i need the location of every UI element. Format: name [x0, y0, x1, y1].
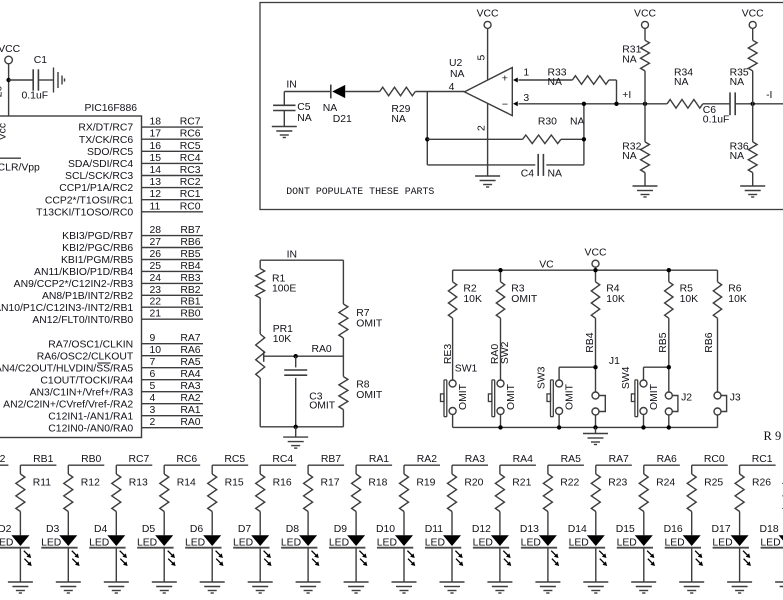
svg-text:LED: LED [425, 537, 445, 548]
svg-text:0.1uF: 0.1uF [22, 91, 49, 102]
svg-text:AN9/CCP2*/C12IN2-/RB3: AN9/CCP2*/C12IN2-/RB3 [14, 279, 134, 290]
svg-text:RA5: RA5 [561, 454, 581, 465]
svg-text:RA4: RA4 [513, 454, 533, 465]
svg-text:D17: D17 [712, 524, 731, 535]
svg-text:RB1: RB1 [180, 297, 200, 308]
svg-text:RC0: RC0 [704, 454, 725, 465]
svg-text:DONT POPULATE THESE PARTS: DONT POPULATE THESE PARTS [286, 186, 434, 197]
svg-text:3: 3 [523, 93, 529, 104]
svg-text:RB4: RB4 [585, 332, 596, 352]
svg-text:D11: D11 [425, 524, 444, 535]
svg-text:SW1: SW1 [455, 364, 478, 375]
svg-text:RB1: RB1 [33, 454, 53, 465]
svg-text:LED: LED [233, 537, 253, 548]
svg-text:RB4: RB4 [180, 261, 200, 272]
svg-text:25: 25 [150, 261, 162, 272]
svg-text:−: − [502, 98, 508, 110]
svg-text:RA6: RA6 [180, 345, 200, 356]
svg-text:C5: C5 [297, 102, 311, 113]
svg-text:IN: IN [287, 250, 297, 261]
svg-text:RC7: RC7 [129, 454, 150, 465]
svg-text:RC5: RC5 [180, 141, 201, 152]
svg-text:LED: LED [569, 537, 589, 548]
svg-text:NA: NA [570, 117, 585, 128]
svg-text:NA: NA [548, 77, 563, 88]
svg-text:RA6/OSC2/CLKOUT: RA6/OSC2/CLKOUT [37, 351, 134, 362]
svg-text:RA1: RA1 [369, 454, 389, 465]
svg-text:-I: -I [766, 90, 772, 101]
svg-text:4: 4 [150, 393, 156, 404]
svg-text:RA2: RA2 [417, 454, 437, 465]
svg-text:SW3: SW3 [536, 366, 547, 389]
svg-text:RA7: RA7 [609, 454, 629, 465]
svg-text:LED: LED [377, 537, 397, 548]
svg-text:NA: NA [622, 55, 637, 66]
svg-text:RC3: RC3 [180, 165, 201, 176]
svg-text:RX/DT/RC7: RX/DT/RC7 [78, 123, 133, 134]
svg-text:U2: U2 [449, 58, 463, 69]
svg-text:R30: R30 [538, 117, 557, 128]
svg-text:R14: R14 [177, 478, 196, 489]
svg-text:NA: NA [391, 114, 406, 125]
svg-text:D7: D7 [238, 524, 252, 535]
svg-text:R25: R25 [704, 478, 723, 489]
svg-text:16: 16 [150, 141, 162, 152]
svg-text:0.1uF: 0.1uF [703, 115, 730, 126]
svg-text:10K: 10K [680, 294, 699, 305]
svg-text:AN12/FLT0/INT0/RB0: AN12/FLT0/INT0/RB0 [32, 315, 133, 326]
svg-text:LED: LED [185, 537, 205, 548]
svg-text:24: 24 [150, 273, 162, 284]
svg-text:RC5: RC5 [224, 454, 245, 465]
svg-text:VCC: VCC [634, 9, 656, 20]
svg-text:C12IN0-/AN0/RA0: C12IN0-/AN0/RA0 [48, 423, 133, 434]
svg-text:PIC16F886: PIC16F886 [84, 103, 137, 114]
svg-text:R24: R24 [656, 478, 675, 489]
svg-text:RC0: RC0 [180, 201, 201, 212]
svg-text:CCP2*/T1OSI/RC1: CCP2*/T1OSI/RC1 [45, 195, 134, 206]
svg-text:C1: C1 [34, 55, 48, 66]
svg-text:RB3: RB3 [180, 273, 200, 284]
svg-text:R26: R26 [752, 478, 771, 489]
svg-text:RA0: RA0 [312, 344, 332, 355]
svg-text:2: 2 [150, 417, 156, 428]
svg-text:R19: R19 [416, 478, 435, 489]
svg-text:D18: D18 [760, 524, 779, 535]
svg-text:CCP1/P1A/RC2: CCP1/P1A/RC2 [59, 183, 133, 194]
svg-text:D15: D15 [616, 524, 635, 535]
svg-text:11: 11 [150, 201, 161, 212]
svg-text:27: 27 [150, 237, 162, 248]
svg-text:3: 3 [150, 405, 156, 416]
svg-text:18: 18 [150, 117, 162, 128]
svg-text:KBI1/PGM/RB5: KBI1/PGM/RB5 [61, 255, 133, 266]
svg-text:RC1: RC1 [752, 454, 773, 465]
svg-text:NA: NA [674, 77, 689, 88]
svg-text:D21: D21 [333, 114, 352, 125]
svg-text:RC7: RC7 [180, 117, 201, 128]
svg-text:LED: LED [329, 537, 349, 548]
svg-text:LED: LED [760, 537, 780, 548]
svg-text:C12IN1-/AN1/RA1: C12IN1-/AN1/RA1 [48, 411, 133, 422]
svg-text:RA3: RA3 [180, 381, 200, 392]
svg-text:AN8/P1B/INT2/RB2: AN8/P1B/INT2/RB2 [42, 291, 133, 302]
svg-text:D5: D5 [142, 524, 156, 535]
svg-text:10K: 10K [606, 294, 625, 305]
svg-text:C4: C4 [521, 168, 535, 179]
svg-text:LED: LED [41, 537, 61, 548]
svg-text:R18: R18 [368, 478, 387, 489]
svg-text:D12: D12 [472, 524, 491, 535]
svg-text:R5: R5 [680, 283, 694, 294]
svg-text:RB5: RB5 [180, 249, 200, 260]
svg-text:J2: J2 [681, 393, 692, 404]
svg-text:NA: NA [730, 151, 745, 162]
svg-text:RB2: RB2 [0, 454, 6, 465]
svg-text:RB7: RB7 [180, 225, 200, 236]
svg-text:NA: NA [548, 168, 563, 179]
svg-text:R11: R11 [33, 478, 52, 489]
svg-text:RC4: RC4 [180, 153, 201, 164]
svg-text:VCC: VCC [585, 247, 607, 258]
svg-text:NA: NA [323, 103, 338, 114]
svg-text:LED: LED [137, 537, 157, 548]
svg-text:LED: LED [473, 537, 493, 548]
svg-text:RB7: RB7 [321, 454, 341, 465]
svg-text:MCLR/Vpp: MCLR/Vpp [0, 163, 40, 174]
svg-text:RA0: RA0 [180, 417, 200, 428]
svg-text:VC: VC [539, 260, 554, 271]
svg-text:OMIT: OMIT [458, 383, 469, 410]
svg-text:NA: NA [730, 77, 745, 88]
svg-text:R15: R15 [225, 478, 244, 489]
svg-text:RB0: RB0 [81, 454, 101, 465]
svg-text:R17: R17 [321, 478, 340, 489]
svg-text:SDO/RC5: SDO/RC5 [87, 147, 133, 158]
svg-text:RA2: RA2 [180, 393, 200, 404]
svg-text:21: 21 [150, 309, 162, 320]
svg-text:LED: LED [664, 537, 684, 548]
svg-text:17: 17 [150, 129, 162, 140]
svg-text:10K: 10K [463, 294, 482, 305]
svg-text:OMIT: OMIT [356, 318, 383, 329]
svg-text:RC6: RC6 [180, 129, 201, 140]
svg-text:+I: +I [622, 90, 631, 101]
svg-text:RB0: RB0 [180, 309, 200, 320]
svg-text:100E: 100E [272, 284, 296, 295]
svg-text:R4: R4 [606, 283, 620, 294]
svg-text:AN10/P1C/C12IN3-/INT2/RB1: AN10/P1C/C12IN3-/INT2/RB1 [0, 303, 133, 314]
svg-text:AN11/KBIO/P1D/RB4: AN11/KBIO/P1D/RB4 [34, 267, 133, 278]
svg-text:OMIT: OMIT [565, 383, 576, 410]
svg-text:NA: NA [450, 69, 465, 80]
svg-text:10K: 10K [728, 294, 747, 305]
svg-text:LED: LED [712, 537, 732, 548]
svg-text:D4: D4 [94, 524, 108, 535]
svg-text:D2: D2 [0, 524, 12, 535]
svg-text:RA6: RA6 [657, 454, 677, 465]
svg-text:OMIT: OMIT [511, 294, 538, 305]
svg-text:RA7/OSC1/CLKIN: RA7/OSC1/CLKIN [48, 339, 133, 350]
svg-text:SW4: SW4 [621, 366, 632, 389]
svg-text:RB6: RB6 [704, 332, 715, 352]
svg-text:LED: LED [89, 537, 109, 548]
svg-text:R16: R16 [273, 478, 292, 489]
svg-text:Vcc: Vcc [0, 123, 9, 140]
svg-text:R22: R22 [560, 478, 579, 489]
svg-text:RC4: RC4 [272, 454, 293, 465]
svg-text:RA1: RA1 [180, 405, 200, 416]
svg-text:KBI3/PGD/RB7: KBI3/PGD/RB7 [62, 231, 133, 242]
svg-text:13: 13 [150, 177, 162, 188]
svg-text:TX/CK/RC6: TX/CK/RC6 [79, 135, 133, 146]
svg-text:D9: D9 [334, 524, 348, 535]
svg-text:R12: R12 [81, 478, 100, 489]
svg-text:KBI2/PGC/RB6: KBI2/PGC/RB6 [62, 243, 133, 254]
svg-text:9: 9 [150, 333, 156, 344]
svg-text:2: 2 [477, 125, 488, 131]
svg-text:+: + [502, 72, 508, 84]
svg-text:SW2: SW2 [500, 341, 511, 364]
svg-text:1: 1 [523, 68, 529, 79]
svg-text:RC1: RC1 [180, 189, 201, 200]
svg-text:J3: J3 [730, 393, 741, 404]
svg-text:15: 15 [150, 153, 162, 164]
svg-text:OMIT: OMIT [356, 390, 383, 401]
svg-text:D8: D8 [286, 524, 300, 535]
svg-text:RB2: RB2 [180, 285, 200, 296]
svg-text:RB5: RB5 [658, 332, 669, 352]
svg-text:R23: R23 [608, 478, 627, 489]
svg-text:22: 22 [150, 297, 162, 308]
svg-text:28: 28 [150, 225, 162, 236]
svg-text:14: 14 [150, 165, 162, 176]
svg-text:D3: D3 [46, 524, 60, 535]
svg-text:4: 4 [449, 82, 455, 93]
svg-text:RC6: RC6 [176, 454, 197, 465]
svg-text:RC2: RC2 [180, 177, 201, 188]
svg-text:RB6: RB6 [180, 237, 200, 248]
svg-text:D14: D14 [568, 524, 587, 535]
svg-text:R21: R21 [512, 478, 531, 489]
svg-text:AN2/C2IN+/CVref/Vref-/RA2: AN2/C2IN+/CVref/Vref-/RA2 [3, 399, 133, 410]
svg-text:5: 5 [477, 55, 488, 61]
svg-text:NA: NA [622, 151, 637, 162]
svg-text:D13: D13 [520, 524, 539, 535]
svg-text:26: 26 [150, 249, 162, 260]
svg-text:OMIT: OMIT [309, 401, 336, 412]
svg-text:AN4/C2OUT/HLVDIN/SS/RA5: AN4/C2OUT/HLVDIN/SS/RA5 [0, 363, 133, 374]
svg-text:20: 20 [0, 86, 5, 98]
svg-text:VCC: VCC [477, 9, 499, 20]
svg-text:5: 5 [150, 381, 156, 392]
svg-text:OMIT: OMIT [649, 383, 660, 410]
svg-text:D16: D16 [664, 524, 683, 535]
svg-text:R 9: R 9 [764, 429, 782, 443]
svg-text:LED: LED [617, 537, 637, 548]
svg-text:R3: R3 [511, 283, 525, 294]
svg-text:IN: IN [286, 80, 296, 91]
svg-text:OMIT: OMIT [506, 383, 517, 410]
svg-text:R2: R2 [463, 283, 477, 294]
svg-text:NA: NA [297, 113, 312, 124]
svg-text:7: 7 [150, 357, 156, 368]
svg-text:RA7: RA7 [180, 333, 200, 344]
svg-text:LED: LED [521, 537, 541, 548]
svg-text:AN3/C1IN+/Vref+/RA3: AN3/C1IN+/Vref+/RA3 [30, 387, 134, 398]
svg-text:23: 23 [150, 285, 162, 296]
svg-text:T13CKI/T1OSO/RC0: T13CKI/T1OSO/RC0 [36, 207, 133, 218]
svg-text:SDA/SDI/RC4: SDA/SDI/RC4 [68, 159, 133, 170]
svg-text:R13: R13 [129, 478, 148, 489]
svg-text:J1: J1 [609, 356, 620, 367]
svg-text:D10: D10 [376, 524, 395, 535]
svg-text:R20: R20 [464, 478, 483, 489]
svg-text:LED: LED [0, 537, 13, 548]
svg-text:D6: D6 [190, 524, 204, 535]
svg-text:VCC: VCC [742, 9, 764, 20]
svg-text:SCL/SCK/RC3: SCL/SCK/RC3 [65, 171, 133, 182]
svg-text:RA3: RA3 [465, 454, 485, 465]
svg-text:10K: 10K [273, 334, 292, 345]
svg-text:C1OUT/TOCKI/RA4: C1OUT/TOCKI/RA4 [40, 375, 133, 386]
svg-text:12: 12 [150, 189, 162, 200]
svg-text:RA4: RA4 [180, 369, 200, 380]
svg-text:RA5: RA5 [180, 357, 200, 368]
svg-text:6: 6 [150, 369, 156, 380]
svg-text:10: 10 [150, 345, 162, 356]
svg-text:RE3: RE3 [443, 344, 454, 364]
svg-text:VCC: VCC [0, 44, 21, 55]
svg-text:LED: LED [281, 537, 301, 548]
svg-text:R6: R6 [728, 283, 742, 294]
